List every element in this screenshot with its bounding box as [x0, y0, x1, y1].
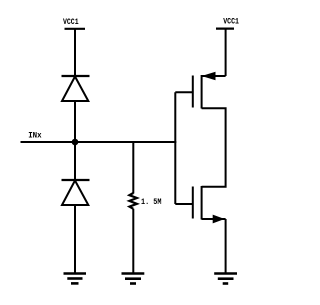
wire PMOS gate lead — [175, 91, 193, 93]
diode D2 (bottom ESD clamp) triangle — [62, 181, 88, 206]
transistor NMOS source arrow (points out to source) — [213, 215, 225, 224]
svg-text:1. 5M: 1. 5M — [141, 197, 161, 207]
wire D2 anode down to ground — [74, 205, 76, 274]
wire node INx down to diode D2 cathode — [74, 142, 76, 180]
transistor PMOS gate bar — [192, 76, 194, 108]
ground (right) — [214, 274, 237, 284]
wire PMOS source lead — [202, 75, 226, 77]
power symbol VCC1 (right rail) bar — [216, 28, 234, 30]
wire NMOS source lead — [202, 218, 226, 220]
wire gate net vertical (INx to both gates) — [174, 92, 176, 204]
wire VCC1 rail to diode D1 cathode — [74, 29, 76, 76]
wire node INx down to resistor R1 — [132, 142, 134, 194]
transistor PMOS source arrow (points into channel) — [202, 72, 216, 81]
junction dot at INx / diode node — [72, 139, 79, 146]
ground (middle) — [122, 274, 145, 284]
diode D2 (bottom ESD clamp) cathode bar — [62, 179, 90, 181]
transistor PMOS channel bar — [201, 75, 203, 109]
wire NMOS source down to ground — [225, 219, 227, 274]
wire PMOS drain to NMOS drain (output node) — [202, 108, 226, 186]
ground (left) — [64, 274, 87, 284]
diode D1 (top ESD clamp) triangle — [62, 77, 88, 102]
wire NMOS gate lead — [175, 203, 193, 205]
wire INx horizontal net — [21, 141, 177, 143]
svg-text:VCC1: VCC1 — [223, 17, 239, 27]
transistor NMOS gate bar — [192, 187, 194, 219]
wire VCC1 rail down to PMOS source — [225, 29, 227, 76]
wire D1 anode down to node INx — [74, 101, 76, 142]
transistor NMOS channel bar — [201, 186, 203, 220]
svg-text:VCC1: VCC1 — [63, 17, 79, 27]
resistor R1 zigzag body — [129, 193, 137, 209]
svg-text:INx: INx — [28, 131, 41, 141]
wire resistor R1 down to ground — [132, 209, 134, 274]
diode D1 (top ESD clamp) cathode bar — [62, 75, 90, 77]
power symbol VCC1 (left rail) bar — [65, 28, 86, 30]
